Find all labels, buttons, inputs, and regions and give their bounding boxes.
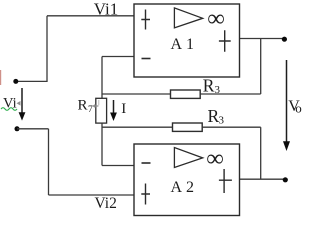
A2 output plus symbol [219,169,232,193]
spellcheck squiggle under Vi [1,108,17,111]
wire A2 feedback vertical [260,127,262,179]
wire Vi2 vertical [48,129,50,195]
svg-text:o: o [295,101,302,116]
svg-text:R: R [78,98,88,114]
wire R7 lower vertical [101,123,103,165]
arrow I (current through R7) [110,100,117,121]
red sliver at left edge [0,70,1,85]
svg-text:7: 7 [88,105,93,115]
A1 output plus symbol [219,30,231,51]
cursor tick beside Vi arrow [17,101,21,106]
node C (output top) [282,37,287,42]
wire A2 output [240,178,286,180]
wire node B horizontal [17,128,49,130]
wire R7 upper vertical [101,57,103,99]
node A (upper input terminal) [13,79,18,84]
wire A1 output [240,38,285,40]
svg-text:I: I [121,101,126,117]
A1 inverting input minus symbol [142,58,151,60]
A1 noninverting input plus symbol [141,10,150,30]
wiper mark on R7 [92,104,95,108]
A2 gain triangle [174,148,202,168]
svg-text:A2: A2 [171,179,199,196]
svg-text:∞: ∞ [208,6,225,32]
node B (lower input terminal) [15,126,20,131]
A2 noninverting input plus symbol [141,184,150,205]
svg-text:R: R [203,75,215,95]
svg-text:∞: ∞ [207,146,224,172]
wire A1 feedback vertical [260,39,262,95]
wire Vi1 top horizontal [47,15,134,17]
A1 gain triangle [174,8,202,28]
wire A2 inverting input [102,165,134,167]
svg-text:Vi1: Vi1 [94,0,118,19]
wire A1 inverting input [102,56,134,58]
arrow Vi3 (input voltage arrow) [19,88,26,121]
A2 inverting input minus symbol [142,162,151,164]
op-amp A2 box [134,144,240,216]
wire Vi1 left vertical [46,16,48,82]
wire R3 top right segment [200,93,261,95]
svg-text:A1: A1 [171,36,199,53]
arrow Vo (output voltage arrow) [283,60,290,151]
wire R3 top left segment [102,93,171,95]
op-amp A1 box [134,4,240,77]
resistor R3 top body [171,90,201,98]
wire R3 bottom right segment [202,126,261,128]
wire node A to corner [16,80,48,82]
wire R3 bottom left segment [102,126,173,128]
svg-text:Vi2: Vi2 [95,195,117,212]
wire Vi2 bottom horizontal [49,194,135,196]
svg-text:3: 3 [219,114,225,126]
node D (output bottom) [283,177,288,182]
resistor R3 bottom body [173,123,203,131]
resistor R7 body [96,98,107,123]
